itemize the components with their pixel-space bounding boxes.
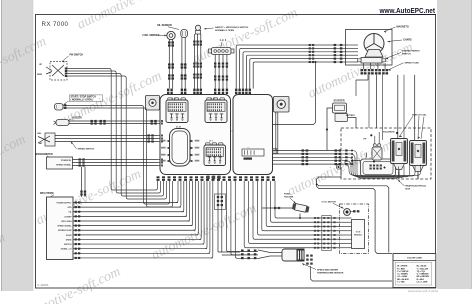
svg-text:P/N SWITCH: P/N SWITCH <box>70 55 84 57</box>
svg-text:( NORMALLY OPEN ): ( NORMALLY OPEN ) <box>71 99 94 102</box>
svg-text:16-12: 16-12 <box>171 98 176 100</box>
svg-text:MODULE: MODULE <box>354 235 363 237</box>
svg-text:▫▫▫: ▫▫▫ <box>247 147 250 149</box>
svg-text:SPEED AND WATER: SPEED AND WATER <box>317 269 338 272</box>
svg-text:BATTERY: BATTERY <box>346 114 355 117</box>
svg-text:STARTER: STARTER <box>334 100 345 103</box>
svg-text:SPEED SWITCH: SPEED SWITCH <box>78 149 95 151</box>
svg-text:START / STOP SWITCH: START / STOP SWITCH <box>71 96 97 99</box>
svg-text:FUSE: FUSE <box>284 194 290 196</box>
svg-text:SIGNAL +15: SIGNAL +15 <box>61 248 72 251</box>
svg-text:HOUR: HOUR <box>66 235 72 237</box>
svg-text:MFS (TRIP)E: MFS (TRIP)E <box>40 193 54 195</box>
svg-text:GY = GRAY: GY = GRAY <box>397 275 408 278</box>
svg-text:SWITCH: SWITCH <box>402 53 411 55</box>
svg-text:V.T.S: V.T.S <box>356 232 361 234</box>
svg-text:SPRAY FLUID: SPRAY FLUID <box>405 62 420 65</box>
svg-text:BK = BLACK: BK = BLACK <box>397 278 409 281</box>
svg-text:POWER SUPPLY: POWER SUPPLY <box>56 203 72 205</box>
svg-text:TEMPERATURE SENSOR: TEMPERATURE SENSOR <box>317 272 344 275</box>
svg-text:www.AutoEPC.net: www.AutoEPC.net <box>379 6 436 15</box>
svg-text:SOLENOID: SOLENOID <box>383 132 395 134</box>
svg-text:SWITCH: SWITCH <box>64 244 72 246</box>
svg-text:LG = L.GRN: LG = L.GRN <box>417 281 428 283</box>
svg-text:SPEEDO FUSE: SPEEDO FUSE <box>58 230 72 232</box>
svg-text:OIL SENSOR: OIL SENSOR <box>157 24 172 27</box>
svg-text:A TEMP: A TEMP <box>64 215 72 218</box>
svg-text:F-16251: F-16251 <box>38 283 50 287</box>
svg-text:HOLDER: HOLDER <box>284 196 294 198</box>
svg-text:DRIVE: DRIVE <box>66 239 73 241</box>
svg-text:RX 7000: RX 7000 <box>42 21 69 28</box>
svg-text:SWITCH COIL: SWITCH COIL <box>412 115 427 117</box>
svg-text:SPEED SIGNAL: SPEED SIGNAL <box>56 163 72 166</box>
svg-text:HDL: HDL <box>37 133 42 135</box>
svg-text:MPH / KMH: MPH / KMH <box>61 221 72 223</box>
svg-text:CHARG: CHARG <box>403 39 412 42</box>
svg-text:BUZZER: BUZZER <box>73 118 83 120</box>
svg-text:REAR ELECTRICAL: REAR ELECTRICAL <box>406 185 427 188</box>
svg-text:DWN: DWN <box>37 74 42 76</box>
svg-text:16-7: 16-7 <box>209 141 213 143</box>
svg-text:T = TAN: T = TAN <box>397 280 405 283</box>
svg-text:SAFETY + WATCHDOG SWITCH: SAFETY + WATCHDOG SWITCH <box>215 26 249 29</box>
svg-text:SPEED SIGNAL: SPEED SIGNAL <box>57 225 72 228</box>
svg-text:BOX: BOX <box>406 188 411 190</box>
svg-text:POWER IN: POWER IN <box>61 160 72 162</box>
svg-text:V.T.S. MOTOR: V.T.S. MOTOR <box>322 202 337 204</box>
svg-text:FUEL SENDER: FUEL SENDER <box>143 34 160 37</box>
svg-text:NORMALLY OPEN: NORMALLY OPEN <box>215 29 234 32</box>
svg-text:COLOR CODE: COLOR CODE <box>407 257 422 259</box>
svg-text:THERMO SERVO: THERMO SERVO <box>402 51 420 53</box>
svg-text:automotive-soft, b-arche: automotive-soft, b-arche <box>408 289 439 293</box>
svg-text:1, 2, 3: 1, 2, 3 <box>220 39 227 42</box>
svg-text:40-40: 40-40 <box>176 126 182 129</box>
svg-text:MAGNETO: MAGNETO <box>397 26 409 29</box>
svg-text:O = ORANGE: O = ORANGE <box>417 273 430 276</box>
svg-text:SPEEDOMETER: SPEEDOMETER <box>35 154 53 156</box>
